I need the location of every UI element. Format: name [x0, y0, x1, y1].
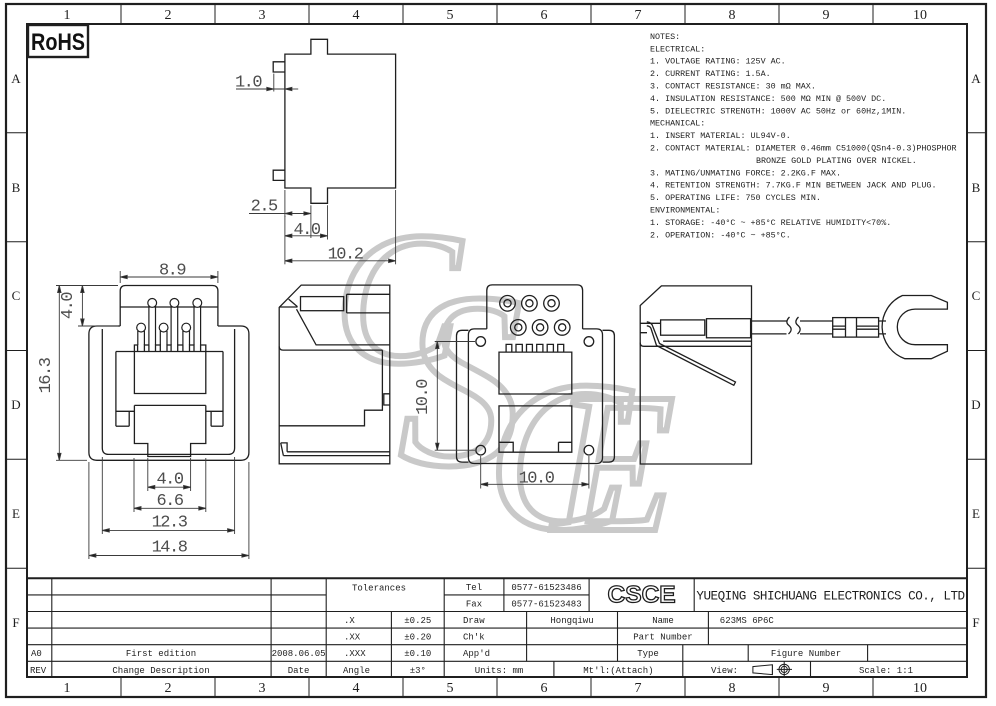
svg-text:5: 5	[447, 8, 454, 23]
svg-text:7: 7	[635, 681, 642, 696]
svg-text:Name: Name	[652, 616, 674, 626]
jack right wing	[206, 411, 223, 426]
terminal pin right segment	[800, 321, 833, 334]
dimension 4.0 bottom	[148, 458, 191, 491]
terminal pin left segment	[752, 321, 787, 334]
svg-text:4: 4	[353, 8, 360, 23]
RoHS logo	[28, 25, 88, 57]
plug internal wire	[647, 322, 736, 386]
pin shafts tall row	[149, 306, 201, 345]
frame zone letters left	[11, 71, 21, 630]
svg-text:12.3: 12.3	[152, 514, 188, 533]
svg-text:7: 7	[635, 8, 642, 23]
rear view body	[468, 329, 602, 464]
svg-text:2. CURRENT RATING: 1.5A.: 2. CURRENT RATING: 1.5A.	[650, 69, 771, 79]
svg-text:Change Description: Change Description	[112, 666, 209, 676]
svg-text:Draw: Draw	[463, 616, 485, 626]
projection view symbol	[753, 662, 792, 678]
pin loops short row	[137, 323, 191, 332]
front view main body outline	[89, 326, 249, 460]
svg-text:Fax: Fax	[466, 600, 482, 610]
svg-text:Ch'k: Ch'k	[463, 633, 485, 643]
svg-text:2: 2	[165, 8, 172, 23]
svg-text:Hongqiwu: Hongqiwu	[550, 616, 593, 626]
front view rear block seam line	[120, 306, 218, 308]
svg-text:2008.06.05: 2008.06.05	[272, 649, 326, 659]
svg-text:B: B	[972, 180, 981, 195]
svg-text:1.0: 1.0	[235, 74, 262, 93]
dimension 14.8	[89, 462, 249, 559]
svg-text:E: E	[972, 506, 980, 521]
pin loops tall row	[148, 299, 202, 308]
crimp collar	[833, 318, 879, 338]
svg-text:1. INSERT MATERIAL: UL94V-0.: 1. INSERT MATERIAL: UL94V-0.	[650, 131, 791, 141]
svg-text:3: 3	[259, 681, 266, 696]
front view inner body wall	[102, 329, 234, 454]
front view rear block (8.9)	[120, 286, 218, 327]
svg-text:.X: .X	[344, 616, 355, 626]
svg-text:F: F	[972, 615, 979, 630]
plug crimp block left	[661, 320, 705, 335]
svg-text:1. VOLTAGE RATING: 125V AC.: 1. VOLTAGE RATING: 125V AC.	[650, 57, 786, 67]
plug body outline	[640, 286, 751, 464]
svg-text:C: C	[12, 288, 21, 303]
svg-text:Part Number: Part Number	[633, 633, 692, 643]
svg-text:0577-61523486: 0577-61523486	[511, 583, 581, 593]
side view pin block left	[301, 297, 344, 311]
pin shafts short row	[138, 331, 190, 345]
title block top border	[27, 577, 967, 579]
svg-text:B: B	[12, 180, 21, 195]
svg-text:16.3: 16.3	[37, 357, 56, 393]
svg-text:A0: A0	[31, 649, 42, 659]
side view bottom lines	[283, 452, 389, 456]
dimension 8.9	[120, 271, 218, 283]
svg-text:Tolerances: Tolerances	[352, 584, 406, 594]
plug pin channel	[640, 323, 660, 332]
pin break symbol	[787, 317, 800, 334]
svg-text:±0.20: ±0.20	[404, 633, 431, 643]
svg-text:8: 8	[729, 681, 736, 696]
jack face bottom edges	[116, 425, 129, 427]
side view front wall	[279, 350, 382, 426]
jack lower opening with latch slot	[134, 405, 205, 456]
side view slope wall	[297, 309, 390, 345]
CSCE logo	[608, 582, 676, 609]
top view left tab upper	[273, 62, 285, 72]
svg-text:BRONZE GOLD PLATING OVER NICKE: BRONZE GOLD PLATING OVER NICKEL.	[756, 156, 917, 166]
svg-text:CSCE: CSCE	[608, 582, 676, 609]
svg-text:A: A	[11, 71, 21, 86]
pin to fork	[879, 321, 886, 334]
fork spade terminal	[882, 296, 947, 359]
side view pin block right	[347, 294, 390, 313]
svg-text:Units: mm: Units: mm	[475, 666, 524, 676]
svg-text:NOTES:: NOTES:	[650, 32, 680, 42]
rear view flange right	[603, 330, 615, 462]
right band row ticks	[967, 133, 986, 568]
svg-text:Scale: 1:1: Scale: 1:1	[859, 666, 913, 676]
svg-text:0577-61523483: 0577-61523483	[511, 600, 581, 610]
svg-text:3: 3	[259, 8, 266, 23]
svg-text:1: 1	[64, 8, 71, 23]
dimension 4.0 vertical	[56, 286, 118, 327]
title block small texts	[30, 583, 913, 676]
side view chamfer sliver	[279, 299, 297, 307]
dimension 4.0	[285, 205, 328, 239]
top view left tab lower	[273, 170, 285, 180]
svg-text:5: 5	[447, 681, 454, 696]
svg-text:MECHANICAL:: MECHANICAL:	[650, 119, 705, 129]
svg-text:3. MATING/UNMATING FORCE: 2.2K: 3. MATING/UNMATING FORCE: 2.2KG.F MAX.	[650, 168, 841, 178]
svg-text:623MS 6P6C: 623MS 6P6C	[720, 616, 775, 626]
svg-text:4: 4	[353, 681, 360, 696]
svg-text:F: F	[12, 615, 19, 630]
svg-text:10.0: 10.0	[519, 469, 555, 488]
svg-text:Mt'l:(Attach): Mt'l:(Attach)	[583, 666, 653, 676]
svg-text:ENVIRONMENTAL:: ENVIRONMENTAL:	[650, 206, 720, 216]
svg-text:.XXX: .XXX	[344, 649, 366, 659]
rear wire holes bottom row	[511, 320, 571, 336]
rear upper cavity with teeth	[499, 352, 572, 394]
svg-text:2. OPERATION: -40°C ~ +85°C.: 2. OPERATION: -40°C ~ +85°C.	[650, 230, 791, 240]
svg-text:1: 1	[64, 681, 71, 696]
svg-text:±3°: ±3°	[410, 666, 426, 676]
svg-text:5. OPERATING LIFE: 750 CYCLES: 5. OPERATING LIFE: 750 CYCLES MIN.	[650, 193, 821, 203]
jack left wing	[116, 411, 134, 426]
frame zone numbers bottom	[64, 681, 928, 696]
svg-text:3. CONTACT RESISTANCE: 30 mΩ M: 3. CONTACT RESISTANCE: 30 mΩ MAX.	[650, 82, 816, 92]
svg-text:6: 6	[541, 8, 548, 23]
jack upper chamber	[134, 352, 205, 394]
svg-text:6: 6	[541, 681, 548, 696]
svg-text:2. CONTACT MATERIAL: DIAMETER: 2. CONTACT MATERIAL: DIAMETER 0.46mm C51…	[650, 144, 957, 154]
svg-text:4. INSULATION RESISTANCE: 500: 4. INSULATION RESISTANCE: 500 MΩ MIN @ 5…	[650, 94, 886, 104]
svg-text:D: D	[11, 397, 20, 412]
svg-text:App'd: App'd	[463, 649, 490, 659]
frame zone numbers top	[64, 8, 928, 23]
contact comb teeth	[134, 345, 205, 352]
svg-text:First edition: First edition	[126, 649, 196, 659]
notes text	[650, 32, 957, 240]
svg-text:ELECTRICAL:: ELECTRICAL:	[650, 44, 705, 54]
svg-text:9: 9	[823, 681, 830, 696]
rear view upper block	[487, 285, 583, 329]
jack face sides	[115, 352, 117, 427]
svg-text:View:: View:	[711, 666, 738, 676]
dimension 10.0 horizontal	[481, 456, 589, 489]
svg-text:Tel: Tel	[466, 583, 482, 593]
dimension 12.3	[102, 457, 234, 534]
svg-text:A: A	[971, 71, 981, 86]
svg-text:6.6: 6.6	[156, 492, 183, 511]
rear mounting holes	[476, 337, 594, 455]
title block vertical lines	[52, 578, 868, 677]
svg-text:10.2: 10.2	[328, 245, 363, 264]
svg-text:14.8: 14.8	[152, 539, 188, 558]
dimension 6.6	[134, 458, 206, 512]
svg-text:10.0: 10.0	[414, 379, 433, 415]
side view bottom-left notch	[281, 443, 287, 456]
svg-text:E: E	[12, 506, 20, 521]
rear lower cavity	[499, 406, 572, 452]
contact pins front view	[137, 299, 202, 346]
svg-text:.XX: .XX	[344, 633, 361, 643]
svg-text:Date: Date	[288, 666, 310, 676]
plug floor lines	[640, 341, 751, 346]
title block horizontal lines	[27, 595, 967, 661]
title block grid	[27, 578, 967, 677]
top view body outline	[285, 39, 396, 203]
svg-text:Angle: Angle	[343, 666, 370, 676]
left band row ticks	[6, 133, 27, 568]
svg-text:10: 10	[913, 8, 927, 23]
svg-text:2.5: 2.5	[251, 198, 278, 217]
svg-text:4.0: 4.0	[293, 221, 320, 240]
dimension 10.0 vertical	[435, 342, 475, 451]
svg-text:REV: REV	[30, 666, 47, 676]
svg-text:9: 9	[823, 8, 830, 23]
svg-text:±0.10: ±0.10	[404, 649, 431, 659]
svg-text:RoHS: RoHS	[31, 29, 85, 56]
side view latch window	[384, 394, 390, 405]
svg-text:YUEQING SHICHUANG ELECTRONICS: YUEQING SHICHUANG ELECTRONICS CO., LTD	[696, 590, 964, 604]
jack face top edge	[116, 351, 223, 353]
svg-text:C: C	[972, 288, 981, 303]
dimension 2.5	[249, 190, 311, 238]
svg-text:8: 8	[729, 8, 736, 23]
watermark CSCE	[334, 194, 675, 575]
svg-text:8.9: 8.9	[159, 262, 186, 281]
svg-text:10: 10	[913, 681, 927, 696]
rear wire holes top row	[500, 296, 560, 312]
svg-text:D: D	[971, 397, 980, 412]
svg-text:4. RETENTION STRENGTH: 7.7KG.F: 4. RETENTION STRENGTH: 7.7KG.F MIN BETWE…	[650, 181, 936, 191]
svg-text:±0.25: ±0.25	[404, 616, 431, 626]
plug crimp block right	[707, 319, 751, 338]
svg-text:2: 2	[165, 681, 172, 696]
svg-text:Type: Type	[637, 649, 659, 659]
side view floor line	[279, 346, 382, 350]
svg-text:Figure Number: Figure Number	[771, 649, 841, 659]
frame zone letters right	[971, 71, 981, 630]
dimension 16.3 vertical	[56, 286, 87, 461]
dimension 10.2	[285, 190, 396, 264]
top band column ticks	[121, 4, 873, 24]
svg-text:4.0: 4.0	[156, 471, 183, 490]
svg-text:1. STORAGE: -40°C ~ +85°C RELA: 1. STORAGE: -40°C ~ +85°C RELATIVE HUMID…	[650, 218, 891, 228]
dimension 1.0	[236, 74, 298, 92]
bottom band column ticks	[121, 677, 873, 697]
side view outline	[279, 285, 390, 464]
rear view flange left	[457, 330, 469, 462]
svg-text:4.0: 4.0	[59, 292, 78, 319]
svg-text:5. DIELECTRIC STRENGTH: 1000V: 5. DIELECTRIC STRENGTH: 1000V AC 50Hz or…	[650, 106, 906, 116]
